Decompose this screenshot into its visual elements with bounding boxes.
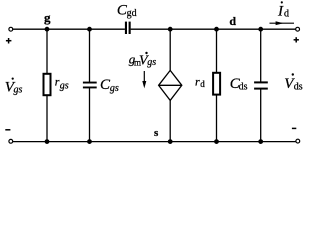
svg-text:I: I bbox=[277, 4, 284, 20]
svg-text:gs: gs bbox=[110, 83, 119, 94]
svg-text:ds: ds bbox=[294, 82, 303, 93]
svg-text:gs: gs bbox=[147, 57, 156, 68]
svg-text:d: d bbox=[284, 9, 289, 20]
svg-text:gd: gd bbox=[127, 8, 137, 19]
svg-text:ds: ds bbox=[239, 82, 248, 93]
svg-text:d: d bbox=[200, 79, 205, 89]
svg-text:gs: gs bbox=[14, 85, 23, 96]
svg-text:g: g bbox=[44, 10, 51, 25]
svg-text:d: d bbox=[229, 14, 236, 28]
svg-text:s: s bbox=[154, 127, 159, 139]
svg-text:gs: gs bbox=[60, 80, 69, 91]
